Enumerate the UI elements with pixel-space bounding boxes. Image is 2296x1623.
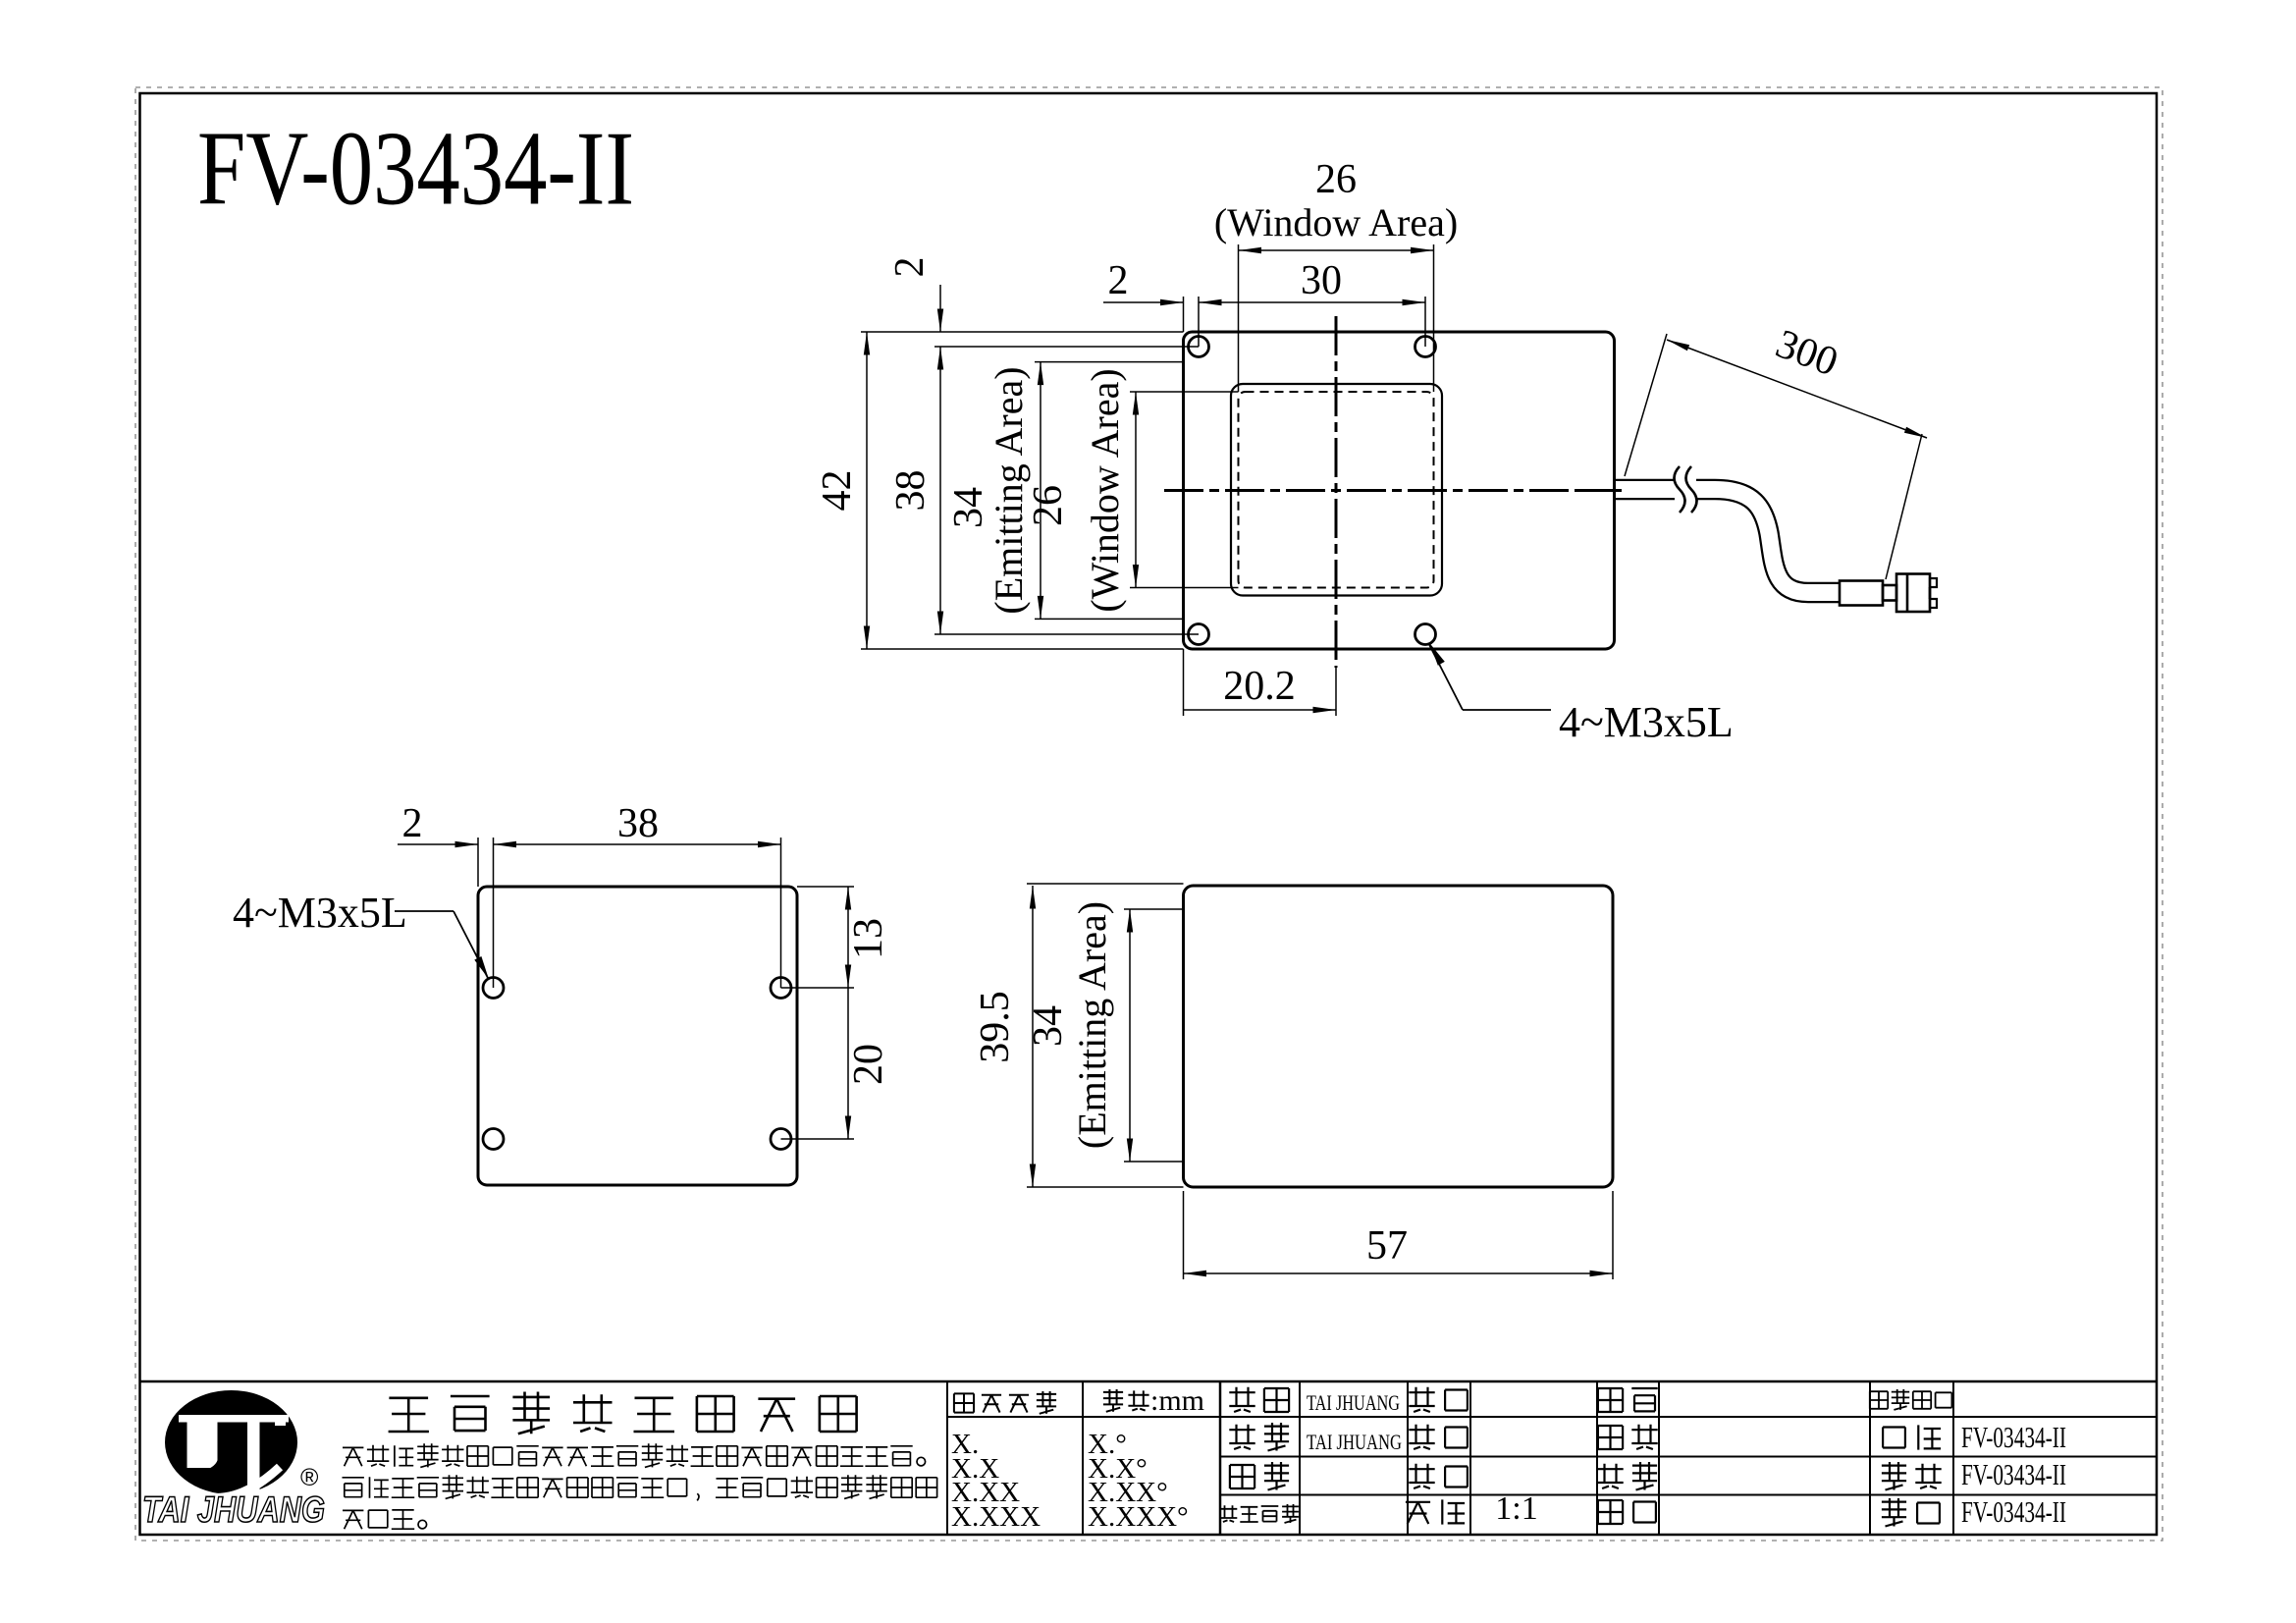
svg-text:FV-03434-II: FV-03434-II (1961, 1494, 2066, 1529)
svg-text:X.XXX°: X.XXX° (1088, 1501, 1189, 1533)
svg-text:42: 42 (815, 470, 860, 512)
svg-text:34: 34 (946, 487, 991, 528)
svg-text:2: 2 (887, 257, 933, 278)
svg-text:38: 38 (617, 801, 659, 846)
svg-text:26: 26 (1315, 157, 1357, 202)
svg-text:TAI JHUANG: TAI JHUANG (142, 1489, 325, 1530)
svg-text:2: 2 (402, 801, 423, 846)
svg-text:X.XXX: X.XXX (951, 1501, 1041, 1533)
svg-text:(Emitting Area): (Emitting Area) (987, 366, 1031, 614)
svg-text:26: 26 (1026, 485, 1071, 526)
svg-text:(Emitting Area): (Emitting Area) (1070, 901, 1114, 1149)
svg-text:®: ® (300, 1464, 319, 1491)
svg-text:TAI JHUANG: TAI JHUANG (1307, 1430, 1402, 1454)
svg-text:1:1: 1:1 (1495, 1490, 1537, 1527)
svg-text:FV-03434-II: FV-03434-II (197, 111, 634, 228)
svg-text:30: 30 (1301, 258, 1342, 303)
svg-text:13: 13 (846, 918, 891, 959)
svg-text:FV-03434-II: FV-03434-II (1961, 1420, 2066, 1454)
svg-text:(Window Area): (Window Area) (1214, 200, 1458, 244)
svg-text:4~M3x5L: 4~M3x5L (233, 889, 407, 937)
svg-text:4~M3x5L: 4~M3x5L (1559, 698, 1734, 746)
svg-text::mm: :mm (1150, 1384, 1204, 1417)
svg-text:38: 38 (888, 470, 934, 512)
svg-text:20: 20 (846, 1044, 891, 1085)
svg-text:20.2: 20.2 (1223, 664, 1296, 709)
svg-text:FV-03434-II: FV-03434-II (1961, 1457, 2066, 1491)
svg-text:2: 2 (1108, 258, 1129, 303)
svg-text:(Window Area): (Window Area) (1083, 368, 1127, 612)
svg-text:57: 57 (1366, 1223, 1408, 1269)
svg-text:39.5: 39.5 (973, 991, 1018, 1063)
svg-text:34: 34 (1026, 1005, 1071, 1047)
svg-text:TAI JHUANG: TAI JHUANG (1307, 1390, 1400, 1415)
